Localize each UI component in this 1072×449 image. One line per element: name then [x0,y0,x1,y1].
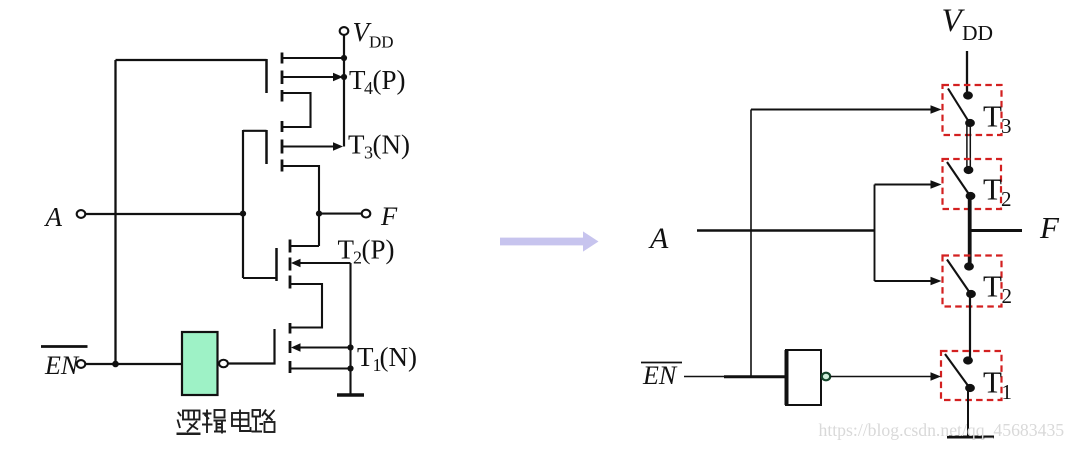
node A junction dot [240,211,246,217]
svg-text:(N): (N) [373,130,410,160]
switch S-T3 box [943,85,1002,135]
power VDD terminal circle [340,27,349,35]
wire T3-T2 double link [967,123,970,170]
transistor Q-T2 channel ticks [289,240,292,289]
svg-text:A: A [648,222,669,255]
wire A2 branch vertical [874,185,876,282]
wire T4 drain to VDD [282,57,344,59]
svg-text:T: T [983,172,1002,207]
inverter U2 box [786,350,821,405]
transistor Q-T4 bulk arrow [282,76,334,78]
switch S-T1 contacts and lever [963,356,973,364]
svg-text:F: F [380,201,398,231]
node T1 bulk dot [347,344,353,350]
logic-block U1 inversion bubble [219,360,228,368]
node F junction dot [316,211,322,217]
wire T1 source [290,367,351,369]
svg-text:A: A [44,202,63,232]
svg-text:DD: DD [962,21,993,45]
switch S-T1 box [941,351,1002,400]
svg-text:T: T [983,99,1002,134]
transistor Q-T2 bulk arrow [291,259,301,267]
transistor Q-T3 gate plate [265,130,268,164]
ground symbol right [947,436,994,439]
node EN-bar terminal circle [77,360,86,368]
transistor Q-T3 gate lead [243,130,267,132]
wire EN2 input [684,376,786,378]
wire F2 output [970,229,1022,232]
ground symbol left [337,393,364,396]
transistor Q-T3 channel ticks [281,121,284,172]
inverter U2 bubble [822,373,830,381]
wire bubble to T1 gate [229,329,275,364]
wire A input [86,213,243,215]
node T1 source dot [347,365,353,371]
transistor Q-T2 gate plate [275,248,278,281]
svg-text:(N): (N) [380,342,417,372]
logic-block U1 (green box) [182,332,218,395]
switch S-T2a contacts and lever [964,166,974,174]
wire T1 to ground [967,388,969,437]
svg-text:https://blog.csdn.net/qq_45683: https://blog.csdn.net/qq_45683435 [819,420,1065,440]
switch S-T3 contacts and lever [963,91,973,99]
wire T2a-F-T2b bold link [968,196,972,267]
svg-text:F: F [1039,210,1060,245]
svg-text:T: T [983,269,1002,304]
svg-text:T: T [348,130,365,160]
wire T3 source to F rail [282,166,319,246]
transistor Q-T4 gate plate [265,59,268,93]
svg-text:T: T [357,342,374,372]
wire T4 source to T3 drain [282,93,311,127]
wire VDD2 stem [966,51,968,95]
switch S-T2b contacts and lever [964,262,974,270]
wire A2 input [697,229,875,231]
wire T1 control with arrow [831,376,932,378]
node T4 bulk dot [341,74,347,80]
wire EN rail [114,60,116,364]
node VDD-T4 drain dot [341,55,347,61]
wire VDD rail [343,35,345,147]
MIDDLE-ARROW transform symbol [500,231,599,251]
transistor Q-T4 channel ticks [281,53,284,102]
svg-text:(P): (P) [362,235,395,265]
node A terminal circle [77,210,86,218]
label logic-block caption (Chinese) 逻辑电路 [177,410,275,434]
wire EN2 control branch vertical [750,110,752,377]
transistor Q-T1 bulk arrow [291,343,301,351]
svg-text:DD: DD [369,33,394,52]
svg-text:(P): (P) [373,65,406,95]
wire EN input [86,363,182,365]
svg-text:T: T [983,365,1002,400]
wire T4 gate lead [116,59,267,61]
svg-text:2: 2 [1001,187,1012,211]
transistor Q-T3 bulk arrow [282,145,334,147]
switch S-T2b box [943,256,1002,307]
switch S-T2a box [943,159,1002,209]
wire F output [319,213,362,215]
wire ground rail right of T1 [349,263,351,394]
transistor Q-T2 gate lead [243,277,277,279]
wire T2b control with arrow [875,280,932,282]
wire T3 control with arrow [751,109,931,111]
node EN rail junction dot [112,361,119,368]
svg-text:2: 2 [1002,284,1013,308]
wire gate rail of T3 and T2 [242,130,244,278]
transistor Q-T1 channel ticks [289,323,292,373]
svg-text:EN: EN [642,361,678,390]
wire T2 drain to F rail [290,245,319,247]
svg-text:EN: EN [44,351,80,380]
wire T2 source to T1 drain [290,284,322,328]
wire T2a control with arrow [875,184,932,186]
node F terminal circle [362,210,371,218]
svg-text:1: 1 [1002,380,1013,404]
svg-text:T: T [338,235,355,265]
wire T2b-T1 link [969,294,971,361]
svg-text:3: 3 [1001,114,1012,138]
